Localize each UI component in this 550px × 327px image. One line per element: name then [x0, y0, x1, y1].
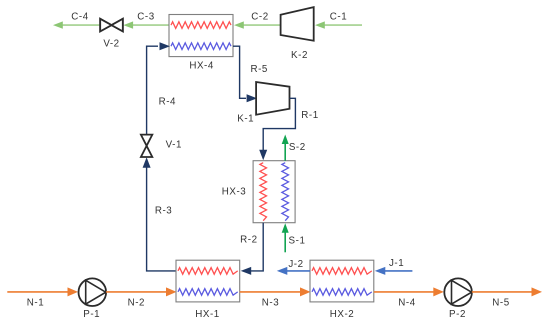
wire R-3 (HX-1 to V-1) — [147, 166, 176, 271]
wire N-5 stream line — [472, 291, 533, 293]
arrowhead R-3 into V-1 — [143, 157, 151, 168]
arrowhead S-2 up — [282, 135, 289, 145]
compressor K-1 — [256, 82, 289, 115]
HX-4 hot coil (red zigzag) — [171, 22, 231, 29]
svg-text:HX-4: HX-4 — [189, 61, 214, 72]
wire N-3 stream line — [240, 291, 301, 293]
svg-text:N-5: N-5 — [492, 298, 509, 309]
svg-text:C-4: C-4 — [71, 11, 88, 22]
wire S-1 (into HX-3 bottom) — [284, 231, 286, 252]
svg-text:N-2: N-2 — [128, 298, 145, 309]
wire R-5 (HX-4 to K-1) — [233, 46, 246, 98]
svg-text:N-1: N-1 — [27, 298, 44, 309]
wire N-2 stream line — [106, 291, 167, 293]
wire N-4 stream line — [374, 291, 435, 293]
heat exchanger HX-4 shell — [169, 15, 233, 57]
wire R-2 (HX-3 to HX-1) — [250, 223, 263, 271]
svg-text:J-2: J-2 — [288, 259, 303, 270]
arrowhead N-5 outlet — [532, 287, 543, 296]
svg-text:HX-3: HX-3 — [222, 187, 247, 198]
svg-text:C-1: C-1 — [330, 11, 347, 22]
svg-text:C-2: C-2 — [251, 11, 268, 22]
arrowhead N-2 into HX-1 — [166, 287, 177, 296]
arrowhead N-4 into P-2 — [433, 287, 444, 296]
arrowhead C-3 into V-2 — [123, 21, 133, 28]
svg-text:C-3: C-3 — [137, 11, 154, 22]
compressor K-2 — [281, 7, 314, 41]
svg-text:HX-2: HX-2 — [330, 309, 355, 320]
wire C-2 stream line (K-2 to HX-4) — [244, 24, 281, 26]
arrowhead S-1 into HX-3 — [282, 223, 289, 233]
svg-text:N-4: N-4 — [398, 298, 415, 309]
heat exchanger HX-3 shell — [253, 161, 295, 223]
svg-text:K-2: K-2 — [291, 50, 308, 61]
arrowhead R-5 into K-1 — [247, 94, 258, 102]
svg-text:R-3: R-3 — [155, 206, 172, 217]
HX-2 hot coil (red zigzag) — [312, 268, 372, 275]
arrowhead C-2 into HX-4 — [234, 21, 244, 28]
wire C-4 stream line (V-2 outlet) — [62, 24, 100, 26]
svg-text:K-1: K-1 — [237, 113, 254, 124]
svg-text:S-2: S-2 — [289, 142, 306, 153]
wire R-4 (V-1 to HX-4) — [147, 46, 158, 135]
svg-text:R-5: R-5 — [250, 64, 267, 75]
wire R-1 (K-1 to HX-3) — [263, 98, 295, 150]
HX-1 hot coil (red zigzag) — [178, 268, 238, 275]
arrowhead J-2 outlet — [277, 267, 288, 275]
HX-1 cold coil (blue zigzag) — [178, 289, 238, 296]
wire S-2 (HX-3 outlet up) — [284, 144, 286, 161]
valve V-2 — [100, 19, 123, 32]
svg-text:P-1: P-1 — [83, 309, 100, 320]
svg-text:HX-1: HX-1 — [195, 309, 220, 320]
svg-text:R-4: R-4 — [159, 97, 176, 108]
arrowhead C-1 into K-2 — [315, 21, 325, 28]
svg-text:S-1: S-1 — [289, 236, 306, 247]
svg-text:P-2: P-2 — [449, 309, 466, 320]
arrowhead C-4 outlet — [53, 21, 63, 28]
pump P-2 — [444, 278, 472, 306]
HX-2 cold coil (blue zigzag) — [312, 289, 372, 296]
heat exchanger HX-1 shell — [176, 260, 240, 302]
wire C-1 stream line — [324, 24, 362, 26]
wire J-1 stream line — [384, 270, 412, 272]
HX-3 hot coil (red zigzag) — [260, 163, 267, 221]
svg-text:R-1: R-1 — [301, 110, 318, 121]
arrowhead R-2 into HX-1 — [241, 267, 252, 275]
arrowhead R-4 into HX-4 — [160, 42, 171, 50]
svg-text:V-1: V-1 — [166, 140, 182, 151]
svg-text:J-1: J-1 — [389, 258, 404, 269]
HX-4 cold coil (blue zigzag) — [171, 43, 231, 50]
pump P-1 — [79, 278, 107, 306]
svg-text:N-3: N-3 — [262, 298, 279, 309]
wire C-3 stream line (HX-4 to V-2) — [133, 24, 169, 26]
arrowhead J-1 into HX-2 — [375, 267, 386, 275]
arrowhead R-1 into HX-3 top — [259, 150, 267, 161]
valve V-1 — [141, 135, 152, 146]
arrowhead N-3 into HX-2 — [300, 287, 311, 296]
svg-text:V-2: V-2 — [103, 38, 119, 49]
arrowhead N-1 into P-1 — [68, 287, 79, 296]
heat exchanger HX-2 shell — [310, 260, 374, 302]
svg-text:R-2: R-2 — [240, 235, 257, 246]
wire J-2 stream line (HX-2 outlet) — [286, 270, 310, 272]
wire N-1 stream line — [7, 291, 69, 293]
HX-3 cold coil (blue zigzag) — [282, 163, 289, 221]
